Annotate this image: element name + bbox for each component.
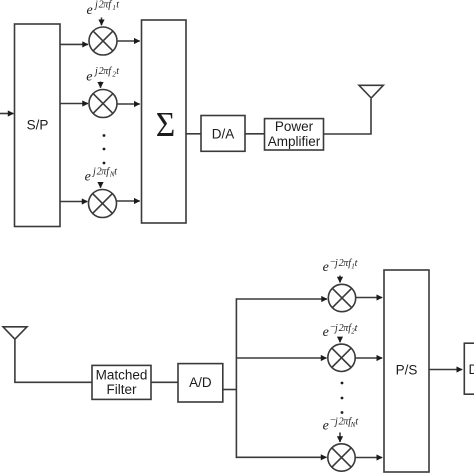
block P/S (384, 270, 429, 472)
dots between RX mixers (341, 382, 344, 414)
svg-text:t: t (355, 323, 358, 334)
wire D/A to Power Amplifier (245, 133, 265, 135)
block S/P (15, 24, 61, 227)
svg-text:Power: Power (275, 119, 314, 134)
mixer M4 (328, 284, 355, 311)
wire carrier N into mixer 3 (100, 182, 102, 188)
wire mixer 5 to P/S (355, 357, 382, 359)
svg-text:e: e (323, 260, 329, 275)
wire bus to mixer 4 (236, 298, 327, 300)
mixer M3 (89, 190, 117, 218)
svg-text:S/P: S/P (27, 118, 49, 133)
wire carrier into mixer 4 (339, 276, 341, 283)
wire RX antenna to Matched Filter (15, 340, 92, 383)
svg-text:e: e (85, 170, 91, 185)
svg-text:Filter: Filter (107, 382, 138, 397)
mixer M1 (89, 27, 117, 55)
block D/A (201, 116, 245, 152)
wire carrier into mixer 6 (339, 433, 341, 443)
svg-text:e: e (87, 3, 93, 18)
svg-text:Amplifier: Amplifier (268, 134, 321, 149)
svg-text:D/A: D/A (212, 126, 235, 141)
wire bus to mixer 6 (236, 456, 326, 458)
label carrier e^j2pif2t (86, 66, 119, 84)
svg-text:t: t (355, 258, 358, 269)
wire carrier into mixer 5 (339, 339, 341, 343)
svg-text:A/D: A/D (189, 375, 212, 390)
svg-text:D: D (469, 362, 474, 377)
wire mixer 1 to summer (117, 40, 140, 42)
wire summer to D/A (186, 133, 201, 135)
dots between TX mixers (103, 134, 106, 164)
block Power Amplifier (265, 119, 324, 150)
wire Matched Filter to A/D (151, 381, 178, 383)
TX antenna (359, 85, 383, 98)
svg-text:t: t (116, 66, 119, 77)
wire carrier 1 into mixer 1 (101, 18, 103, 26)
svg-text:πf: πf (103, 66, 112, 77)
block Matched Filter (92, 365, 151, 399)
block detector (cut off) (464, 343, 474, 394)
wire mixer 6 to P/S (355, 457, 382, 459)
RX antenna (3, 327, 27, 339)
wire S/P to mixer 2 (60, 103, 88, 105)
mixer M6 (328, 444, 355, 471)
wire mixer 4 to P/S (356, 297, 383, 299)
svg-text:t: t (116, 0, 119, 11)
label carrier e^-j2pif1t (323, 257, 358, 276)
svg-text:P/S: P/S (396, 363, 418, 378)
svg-text:t: t (355, 417, 358, 428)
wire bus to mixer 5 (236, 357, 326, 359)
svg-text:πf: πf (103, 0, 112, 11)
svg-text:Matched: Matched (96, 368, 148, 383)
wire S/P to mixer 3 (60, 201, 88, 203)
svg-text:e: e (323, 419, 329, 434)
label carrier e^j2pif1t (87, 0, 120, 18)
wire mixer 2 to summer (117, 103, 140, 105)
wire S/P to mixer 1 (60, 43, 88, 45)
wire bus vertical (235, 298, 237, 458)
wire P/S to detector (429, 369, 462, 371)
mixer M2 (89, 90, 117, 118)
svg-text:e: e (323, 325, 329, 340)
wire carrier 2 into mixer 2 (100, 82, 102, 88)
label carrier e^-j2pifNt (323, 415, 359, 434)
label carrier e^-j2pif2t (323, 322, 358, 341)
wire A/D to bus (223, 389, 237, 391)
wire input to S/P (0, 113, 14, 115)
wire Power Amplifier to TX antenna (324, 99, 372, 134)
svg-text:Σ: Σ (156, 105, 176, 144)
block A/D (178, 364, 223, 402)
svg-text:t: t (114, 166, 117, 177)
block summer (142, 20, 187, 223)
svg-text:e: e (86, 70, 92, 85)
wire mixer 3 to summer (117, 200, 140, 202)
mixer M5 (328, 344, 355, 371)
label carrier e^j2pifNt (85, 166, 118, 184)
